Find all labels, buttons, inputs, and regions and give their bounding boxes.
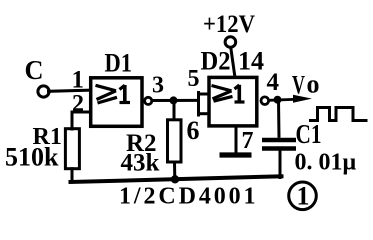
svg-text:7: 7 — [242, 128, 254, 154]
gate D1 OR-symbol — [96, 85, 131, 103]
wire C to pin 1 — [49, 90, 91, 91]
pin 7 label — [242, 128, 254, 154]
wire R2 to rail — [173, 162, 176, 180]
ground — [220, 152, 252, 157]
+12V label — [203, 11, 255, 38]
resistor R1 — [65, 129, 79, 169]
junction node Vo — [274, 96, 282, 104]
pin 5 label — [188, 66, 200, 92]
gate D2 — [209, 77, 257, 126]
wire pin 7 — [235, 126, 238, 153]
wire C1 to rail — [279, 151, 282, 178]
junction node B on rail — [171, 175, 179, 183]
svg-text:+12V: +12V — [203, 11, 255, 38]
capacitor C1 — [262, 140, 296, 149]
svg-text:43k: 43k — [121, 150, 160, 177]
wire junction to C1 — [277, 100, 281, 138]
gate D1 label — [105, 49, 133, 78]
pin 6 label — [187, 116, 200, 145]
pin 3 bubble — [145, 97, 152, 104]
svg-text:D1: D1 — [105, 49, 133, 78]
Vo label — [292, 70, 320, 100]
R1 value 510k — [5, 143, 59, 172]
C1 label — [296, 119, 322, 149]
wire pin 3 to D2 inputs — [152, 99, 198, 102]
wire junction to R2 — [173, 100, 176, 120]
R2 value 43k — [121, 150, 160, 177]
svg-text:V: V — [292, 71, 305, 100]
svg-text:3: 3 — [152, 73, 164, 99]
wire R1 to rail — [71, 169, 74, 182]
pin 4 label — [267, 69, 280, 96]
node C label — [25, 55, 44, 85]
svg-text:14: 14 — [238, 47, 264, 76]
D2 input tie wire — [199, 93, 210, 116]
waveform icon — [309, 108, 368, 121]
svg-text:C: C — [25, 55, 44, 85]
svg-text:6: 6 — [187, 116, 200, 145]
pin 1 label — [72, 67, 85, 94]
gate D2 OR-symbol — [212, 85, 245, 102]
svg-text:4: 4 — [267, 69, 280, 96]
IC label 1/2CD4001 — [119, 184, 258, 210]
bottom rail wire — [71, 176, 282, 182]
svg-text:o: o — [307, 70, 320, 99]
terminal C — [38, 86, 49, 97]
pin 14 label — [238, 47, 264, 76]
figure number 1 — [289, 182, 317, 211]
terminal +12V — [225, 37, 236, 48]
R2 label — [126, 130, 157, 157]
wire pin 2 to R1 — [72, 112, 90, 129]
svg-text:1: 1 — [72, 67, 85, 94]
gate D1 — [91, 78, 142, 127]
C1 value 0.01u — [295, 150, 357, 176]
svg-text:0. 01μ: 0. 01μ — [295, 150, 357, 176]
svg-text:510k: 510k — [5, 143, 59, 172]
pin 3 label — [152, 73, 164, 99]
pin 2 label — [72, 91, 84, 117]
svg-text:1/2CD4001: 1/2CD4001 — [119, 184, 258, 210]
svg-text:D2: D2 — [201, 47, 231, 76]
pin 4 bubble — [261, 97, 269, 105]
wire pin 14 to supply — [231, 48, 235, 78]
svg-text:1: 1 — [297, 182, 310, 211]
wire pin 4 to output — [269, 99, 296, 100]
R1 label — [33, 124, 62, 150]
gate D2 label — [201, 47, 231, 76]
resistor R2 — [168, 120, 182, 162]
svg-text:C1: C1 — [296, 119, 322, 149]
output arrow — [293, 95, 312, 103]
junction node A — [170, 96, 178, 104]
svg-text:5: 5 — [188, 66, 200, 92]
